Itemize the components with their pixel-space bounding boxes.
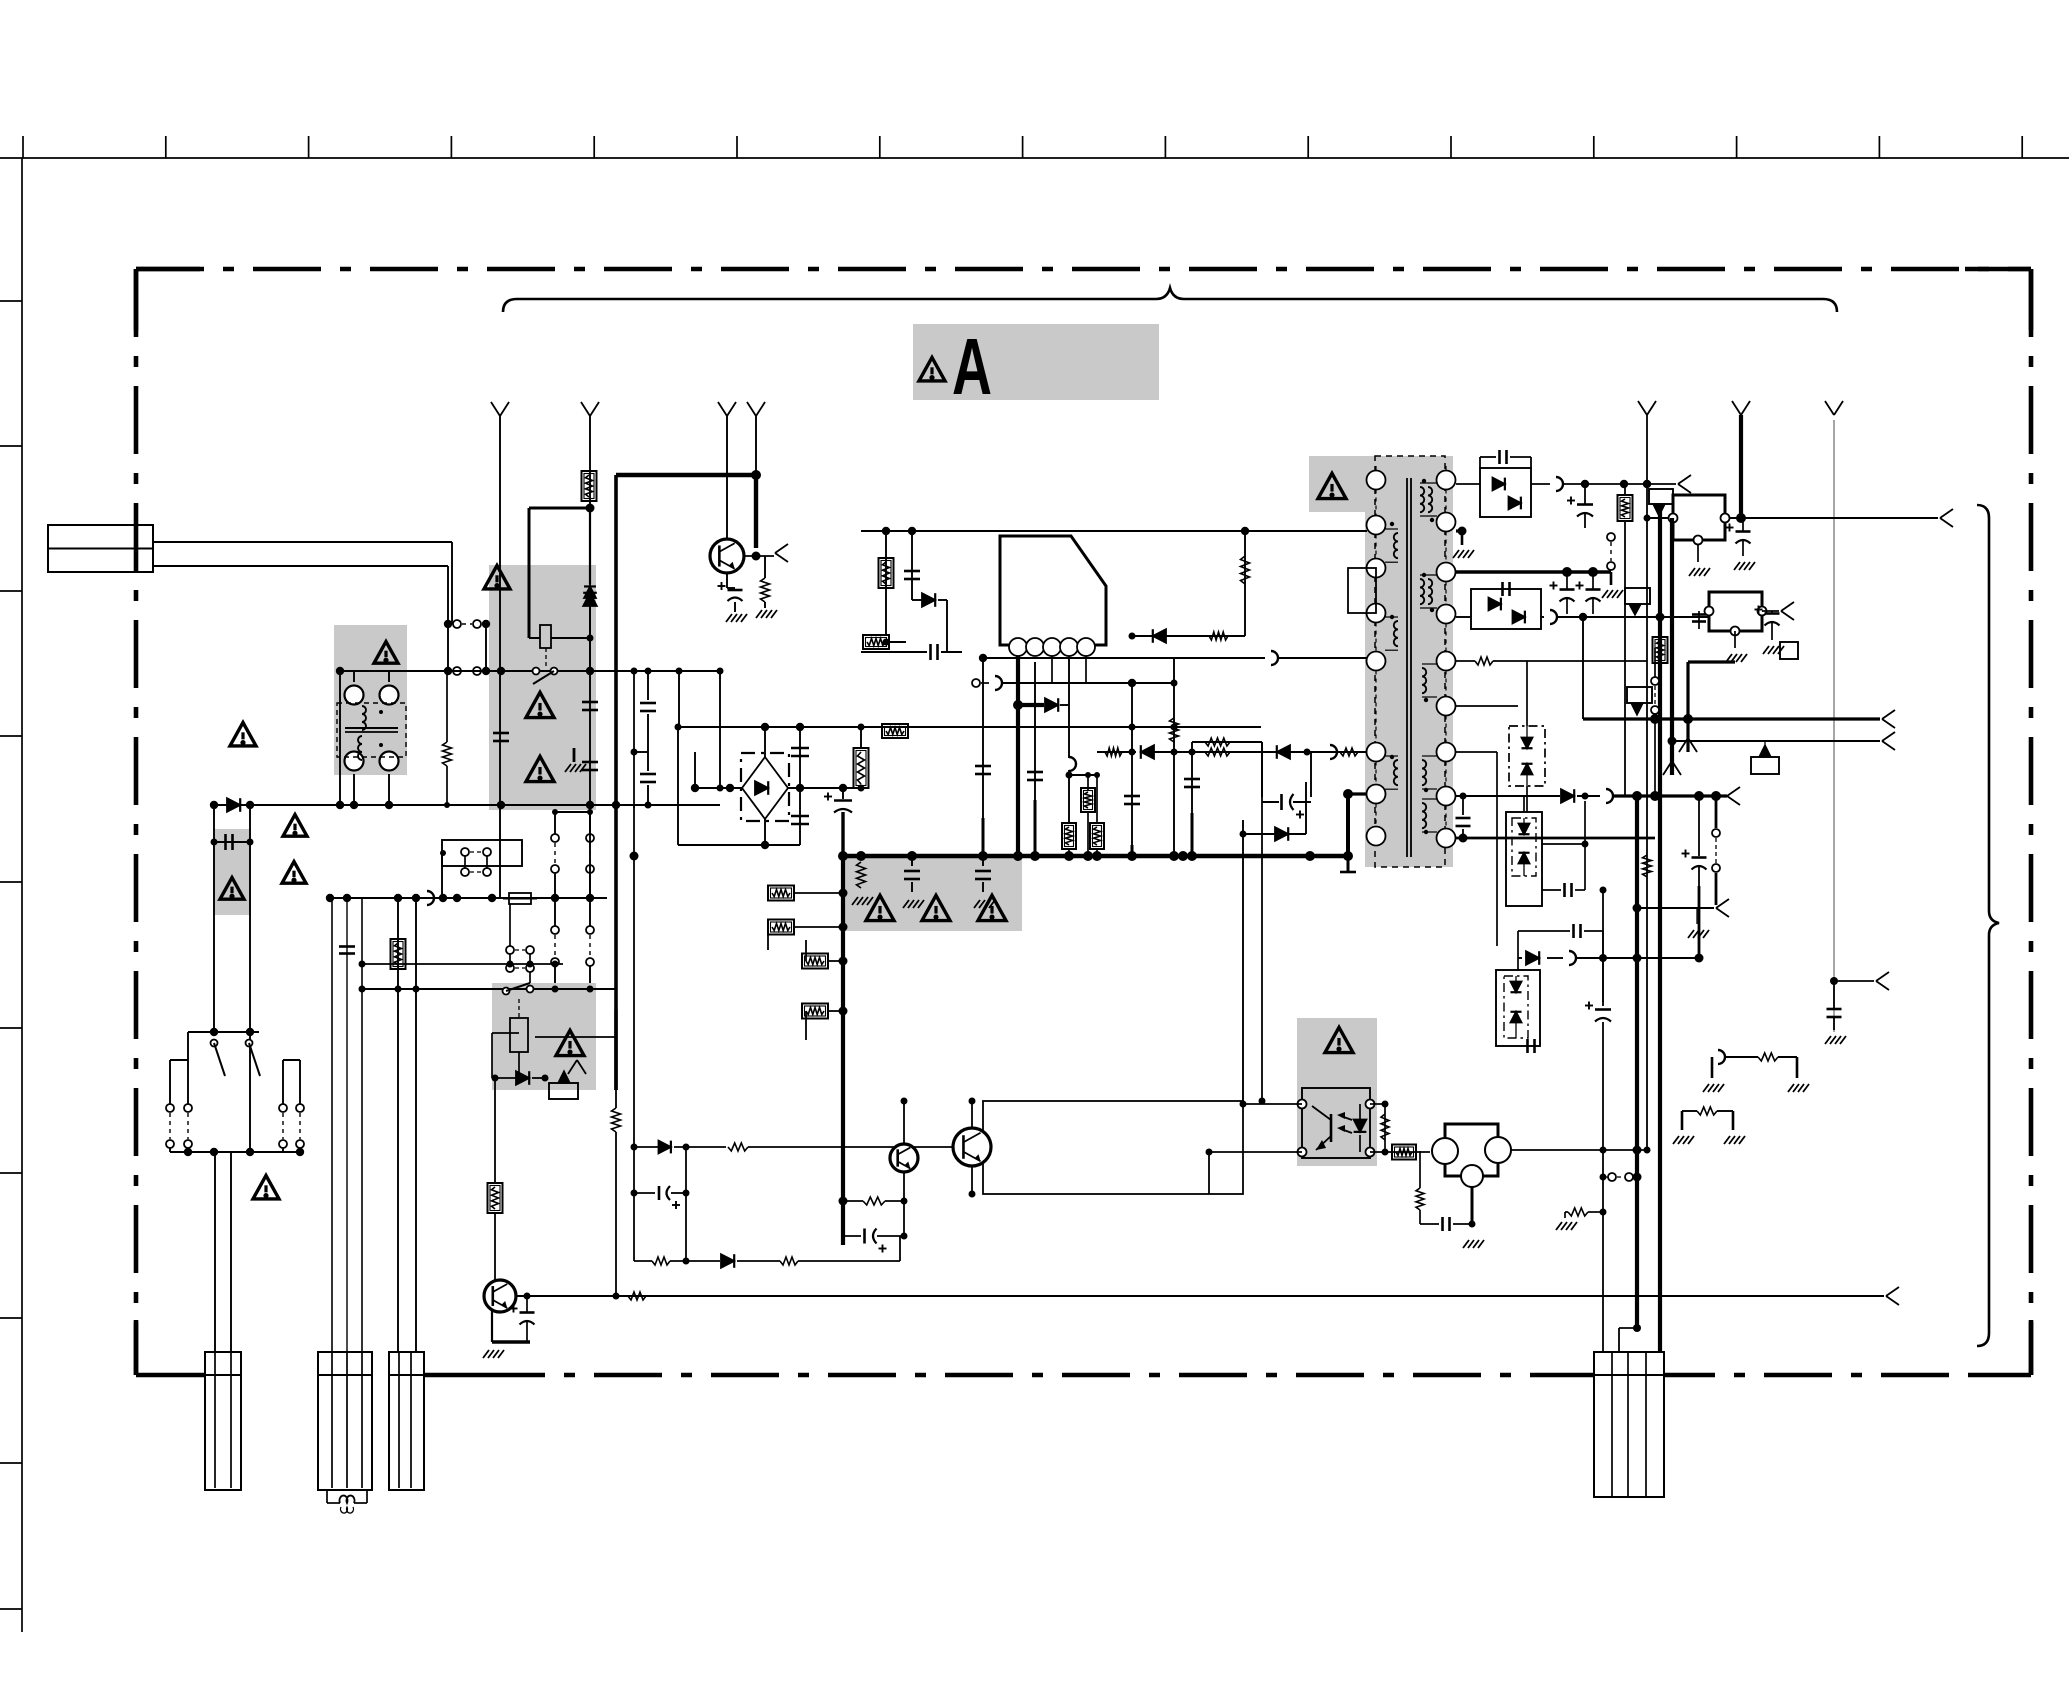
svg-text:A: A bbox=[952, 322, 992, 411]
